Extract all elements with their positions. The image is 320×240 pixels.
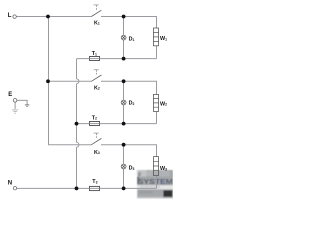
svg-text:K3: K3 bbox=[94, 150, 100, 156]
svg-text:W2: W2 bbox=[160, 101, 167, 107]
svg-text:T3: T3 bbox=[92, 179, 97, 185]
svg-text:K2: K2 bbox=[94, 85, 100, 91]
svg-text:D1: D1 bbox=[129, 37, 135, 43]
svg-text:T2: T2 bbox=[92, 115, 97, 121]
svg-text:K1: K1 bbox=[94, 20, 100, 26]
svg-text:T1: T1 bbox=[92, 51, 97, 57]
svg-text:L: L bbox=[8, 13, 12, 19]
svg-text:SYSTEM: SYSTEM bbox=[138, 179, 173, 186]
svg-text:W3: W3 bbox=[160, 166, 167, 172]
svg-text:D3: D3 bbox=[129, 166, 135, 172]
svg-text:D2: D2 bbox=[129, 101, 135, 107]
svg-text:E: E bbox=[8, 92, 12, 98]
svg-text:N: N bbox=[8, 181, 12, 187]
svg-text:W1: W1 bbox=[160, 36, 167, 42]
